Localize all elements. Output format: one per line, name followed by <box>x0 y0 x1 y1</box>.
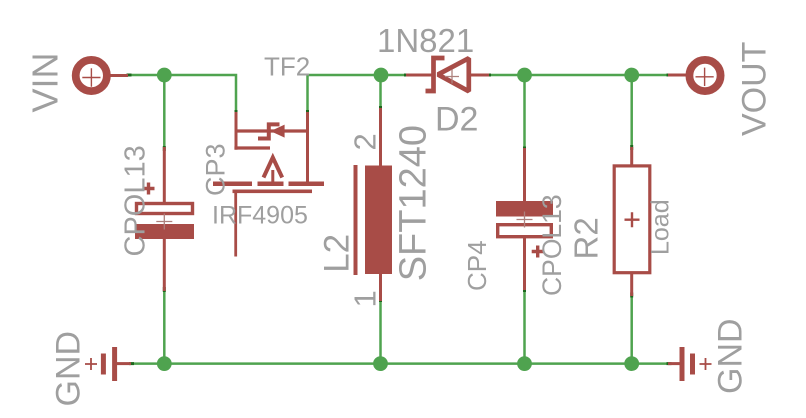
transistor CP3 IRF4905 channel bar right <box>289 182 325 187</box>
svg-text:CPOL13: CPOL13 <box>537 194 567 296</box>
svg-text:IRF4905: IRF4905 <box>212 202 308 230</box>
transistor CP3 IRF4905 body diode zener bar <box>258 124 280 138</box>
capacitor CPOL13 pin top <box>163 147 166 203</box>
junction bottom at CPOL13 column <box>157 356 172 371</box>
resistor R2 body <box>614 166 650 273</box>
svg-text:SFT1240: SFT1240 <box>393 125 435 281</box>
origin cross GND left <box>85 358 97 370</box>
transistor CP3 IRF4905 body-diode rail <box>236 129 308 132</box>
wire top junction down to R2 <box>630 75 633 146</box>
ground GND left tall bar <box>112 347 117 381</box>
wire MOSFET drain to diode left <box>308 75 406 111</box>
pin tip GND left <box>129 362 134 365</box>
transistor CP3 IRF4905 drain pin <box>306 112 309 184</box>
pin VIN pad <box>110 74 128 77</box>
capacitor CP4 pin bottom <box>523 236 526 290</box>
origin cross D2 <box>445 70 459 84</box>
junction bottom at R2 column <box>624 356 639 371</box>
pin tip R2 top <box>630 145 633 150</box>
origin cross CPOL13 <box>156 214 172 230</box>
svg-text:CP4: CP4 <box>462 240 492 291</box>
capacitor CP4 top plate <box>496 201 553 217</box>
resistor R2 pin top <box>630 147 633 166</box>
wire top junction down to L2 <box>379 75 382 107</box>
pin tip R2 bottom <box>630 293 633 298</box>
svg-text:1N821: 1N821 <box>377 22 474 59</box>
diode D2 zener bar <box>426 58 445 91</box>
transistor CP3 IRF4905 gate pin <box>234 193 237 257</box>
svg-text:Load: Load <box>647 199 675 255</box>
junction bottom at L2 column <box>373 356 388 371</box>
wire diode right to VOUT <box>490 74 667 77</box>
wire top rail VIN to MOSFET source <box>130 75 236 111</box>
capacitor CPOL13 bottom plate <box>135 224 194 239</box>
transistor CP3 IRF4905 body diode arrow <box>271 125 285 138</box>
origin cross R2 <box>625 212 640 227</box>
transistor CP3 IRF4905 bulk arrow <box>264 158 283 178</box>
capacitor CP4 bottom plate <box>498 225 552 237</box>
plus sign CPOL13 <box>143 183 155 195</box>
wire L2 bottom to GND rail <box>379 301 382 364</box>
transistor CP3 IRF4905 source pin <box>235 112 238 150</box>
capacitor CPOL13 top plate <box>137 204 193 214</box>
terminal pad VIN <box>76 60 107 91</box>
origin cross CP4 <box>517 212 533 228</box>
pin tip CPOL13 top <box>163 146 166 151</box>
svg-text:GND: GND <box>50 331 88 407</box>
svg-text:VIN: VIN <box>25 52 66 112</box>
transistor CP3 IRF4905 channel bar left <box>213 182 252 187</box>
wire bottom GND rail <box>133 362 667 365</box>
wire top junction down to CP4 <box>523 75 526 147</box>
pin tip diode right <box>486 74 491 77</box>
terminal pad VOUT <box>689 60 720 91</box>
junction top at VIN column <box>157 68 172 83</box>
diode D2 triangle <box>438 58 469 91</box>
pin tip GND right <box>667 362 672 365</box>
junction top at L2 column <box>374 68 389 83</box>
svg-text:CP3: CP3 <box>201 143 231 196</box>
diode D2 pin right <box>470 74 489 77</box>
pin tip CPOL13 bottom <box>163 287 166 292</box>
ground GND left pin <box>116 362 131 365</box>
transistor CP3 IRF4905 channel bar middle <box>258 182 284 187</box>
pin tip L2 bottom <box>379 297 382 302</box>
wire R2 bottom to GND rail <box>630 296 633 364</box>
svg-text:1: 1 <box>348 290 383 307</box>
svg-text:CPOL13: CPOL13 <box>120 145 152 256</box>
wire CPOL13 bottom to GND rail <box>163 291 166 364</box>
capacitor CP4 pin top <box>523 148 526 203</box>
pin tip L2 top <box>379 106 382 111</box>
resistor R2 pin bottom <box>630 273 633 296</box>
inductor L2 coil body <box>365 166 392 275</box>
junction top at CP4 column <box>517 68 532 83</box>
ground GND left short bar <box>101 354 106 375</box>
svg-text:TF2: TF2 <box>264 52 310 82</box>
svg-text:R2: R2 <box>568 217 605 259</box>
wire CP4 bottom to GND rail <box>523 291 526 364</box>
ground GND right tall bar <box>680 347 685 381</box>
capacitor CPOL13 pin bottom <box>163 238 166 291</box>
inductor L2 core line <box>354 165 358 275</box>
svg-text:L2: L2 <box>318 234 357 273</box>
pin VOUT pad <box>668 74 686 77</box>
junction top at R2 column <box>624 68 639 83</box>
svg-text:GND: GND <box>712 318 750 394</box>
origin cross VOUT <box>696 68 714 86</box>
origin cross VIN <box>82 68 100 86</box>
transistor CP3 IRF4905 gate bar <box>233 190 313 194</box>
wire VIN junction down to CPOL13 <box>163 75 166 147</box>
diode D2 pin left <box>406 74 433 77</box>
pin tip CP4 bottom <box>523 287 526 292</box>
plus sign CP4 <box>532 246 544 258</box>
transistor CP3 IRF4905 bulk rail <box>234 146 270 149</box>
ground GND right pin <box>668 362 681 365</box>
pin tip CP4 top <box>523 147 526 152</box>
pin tip MOSFET source <box>235 110 238 115</box>
pin tip diode left <box>404 74 409 77</box>
junction bottom at CP4 column <box>517 356 532 371</box>
inductor L2 pin top <box>379 108 382 170</box>
transistor CP3 IRF4905 bulk arrow stem <box>271 170 274 184</box>
svg-text:D2: D2 <box>435 101 478 139</box>
pin tip MOSFET drain <box>306 110 309 115</box>
svg-text:VOUT: VOUT <box>736 42 774 136</box>
ground GND right short bar <box>690 354 695 375</box>
inductor L2 pin bottom <box>379 270 382 301</box>
svg-text:2: 2 <box>348 133 383 150</box>
pin tip VOUT <box>667 74 672 77</box>
origin cross GND right <box>700 358 712 370</box>
pin tip VIN <box>127 74 132 77</box>
